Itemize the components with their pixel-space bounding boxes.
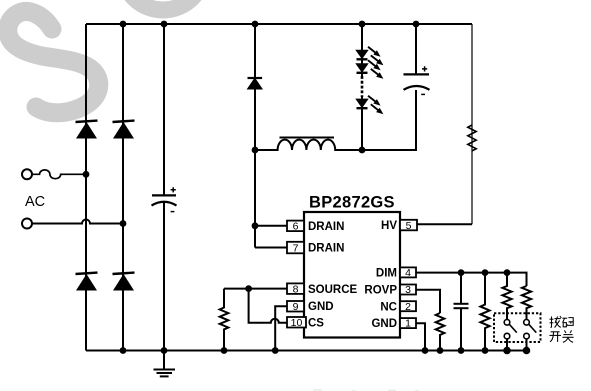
pin 1 box [400,318,416,330]
node SW1 rail [503,347,511,355]
wire bottom ground rail [86,350,527,352]
watermark letter S [8,11,99,112]
svg-text:7: 7 [293,243,299,255]
wire ROVP [416,290,440,313]
wire pin6 [255,225,287,227]
svg-text:DRAIN: DRAIN [308,243,344,255]
wire out cap top [415,24,417,74]
svg-text:HV: HV [381,220,397,232]
switch SW2 [524,320,537,339]
node pin1 rail [422,347,429,354]
svg-text:DRAIN: DRAIN [308,221,344,233]
inductor L1 [255,138,362,151]
ground symbol [154,351,176,377]
node bridge B rail [120,347,127,354]
wire AC neutral with hop [32,220,123,224]
diode D1 [76,121,98,139]
svg-text:3: 3 [405,284,411,296]
wire pin9 GND [275,306,287,350]
node R3 rail [482,347,489,354]
node top rail out cap [413,21,420,28]
wire inductor to cap [362,90,416,150]
pin 10 box [287,317,306,329]
wire CS branch with hop [249,289,287,323]
faint caption remnants bottom [313,389,419,391]
diode D2 [113,121,135,139]
svg-text:DIM: DIM [376,268,397,280]
svg-text:9: 9 [293,301,299,313]
pin 8 box [287,283,304,295]
svg-text:2: 2 [405,301,411,313]
resistor R4 [502,273,511,320]
svg-text:CS: CS [308,317,324,329]
svg-text:5: 5 [406,220,412,232]
svg-text:NC: NC [380,301,397,313]
svg-text:GND: GND [371,318,397,330]
resistor R6 rovp [436,313,445,351]
svg-text:BP2872GS: BP2872GS [309,194,395,212]
node C3 rail [458,347,465,354]
node fuse junction [83,171,90,178]
capacitor C2 output [404,66,430,94]
label dip switch chinese 开 [549,332,561,342]
LED1 arrows [368,47,383,66]
LED2 arrows [368,60,383,79]
svg-text:ROVP: ROVP [364,285,397,297]
wire bridge leg B [122,24,124,351]
capacitor C1 bulk [152,187,177,211]
svg-text:GND: GND [308,301,334,313]
wire top rail [86,23,472,25]
node R6 rail [437,347,444,354]
capacitor C3 [454,273,469,351]
LED LED3 [357,99,368,108]
svg-text:6: 6 [293,221,299,233]
node inductor right [359,147,366,154]
pin labels left [308,221,358,329]
wire pin1 GND [416,323,425,350]
node top rail freewheel [252,21,259,28]
pin 4 box [400,267,416,279]
node SW2 rail [523,347,531,355]
resistor R2 HV [468,125,476,151]
node R1 rail [221,347,228,354]
wire freewheel leg [254,24,256,248]
wire LED leg [361,24,363,150]
fuse F1 [32,170,86,179]
pin labels right [364,220,397,330]
watermark ring [122,0,204,10]
wire right HV leg [471,24,473,224]
label dip switch chinese 关 [562,330,573,342]
node ground rail cap [161,347,168,354]
wire LED leg dashed [361,76,364,97]
wire pin8 SOURCE [224,288,287,290]
AC terminal top [22,169,32,179]
wire SW2 to rail [526,339,528,351]
node AC neutral junction [120,220,127,227]
pin 2 box [400,301,416,313]
node top rail cap [161,21,168,28]
LED3 arrows [368,96,383,115]
wire DIM [416,273,527,286]
pin 5 box [400,220,417,232]
node DIM r3 [482,269,489,276]
DIP switch box [494,313,541,342]
pin 7 box [287,242,304,255]
node source-cs junction [245,285,252,292]
IC U1 BP2872GS [304,212,400,338]
pin 9 box [287,301,304,313]
node DIM r4 [504,269,511,276]
node top rail B [120,21,127,28]
resistor R5 [522,286,531,320]
wire pin7 [255,247,287,249]
LED LED1 [357,51,368,60]
AC terminal bottom [22,219,32,229]
diode D3 [76,273,98,291]
svg-text:10: 10 [291,317,303,329]
LED LED2 [357,64,368,73]
svg-text:SOURCE: SOURCE [308,284,358,296]
wire HV pin5 [418,223,473,225]
diode D5 freewheel [248,78,263,89]
label dip switch chinese 码 [562,318,573,327]
label dip switch chinese 拨 [550,316,562,328]
wire bridge leg A [85,24,87,351]
diode D4 [113,273,135,291]
resistor R1 sense [220,289,229,351]
pin 6 box [287,221,304,233]
pin 3 box [400,284,416,296]
wire SW1 to rail [506,339,508,351]
node top rail LED [359,21,366,28]
wire bulk cap leg [163,24,165,351]
node pin9 rail [272,347,279,354]
node inductor left [252,147,259,154]
svg-text:AC: AC [25,194,45,210]
switch SW1 [504,320,517,339]
svg-text:8: 8 [293,283,299,295]
svg-text:4: 4 [405,267,411,279]
node DIM c3 [458,269,465,276]
resistor R3 [480,273,489,351]
node pin6 branch [252,222,259,229]
svg-text:1: 1 [405,318,411,330]
